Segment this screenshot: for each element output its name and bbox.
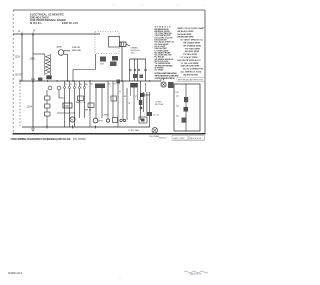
wire drop x140 (139, 81, 141, 120)
svg-text:DR: DR (176, 92, 180, 94)
ign component hatch blob A (100, 57, 106, 62)
lamp circle left A (48, 86, 52, 90)
sheet border right (204, 10, 206, 134)
svg-text:L1: L1 (18, 31, 21, 33)
svg-text:OVEN WIRING SCHEMATIC FOR (MO: OVEN WIRING SCHEMATIC FOR (MODEL) ERD 36… (11, 137, 71, 141)
svg-text:1280: 1280 (30, 59, 36, 61)
svg-text:14: 14 (70, 84, 72, 86)
svg-text:MTR: MTR (98, 121, 103, 123)
switch blob B (140, 75, 144, 79)
svg-text:1234: 1234 (27, 106, 33, 109)
igniter circle component (58, 50, 64, 56)
right box blob B (184, 107, 189, 112)
heating element comb (45, 54, 51, 75)
svg-text:316080-100 A: 316080-100 A (8, 272, 23, 275)
svg-text:P/N 316080: P/N 316080 (73, 138, 86, 141)
svg-text:WIRE COLOR CODE CHART: WIRE COLOR CODE CHART (178, 27, 206, 30)
wire drop x64 (64, 81, 66, 127)
switch blob A (133, 74, 138, 78)
wire drop x108 (107, 81, 109, 118)
legend column 2 (178, 27, 206, 76)
svg-text:IGN 3.2A: IGN 3.2A (72, 49, 81, 52)
svg-text:M: M (71, 119, 73, 122)
svg-text:TN TAN WIRE: TN TAN WIRE (183, 53, 198, 56)
svg-text:GY GRAY WIRE NO 14: GY GRAY WIRE NO 14 (181, 39, 204, 42)
svg-text:RD RED WIRE: RD RED WIRE (185, 51, 200, 53)
wire drop x69 (69, 81, 71, 127)
svg-text:FAN: FAN (104, 114, 109, 117)
wire vertical x122 (121, 47, 123, 82)
right box blob C (182, 118, 187, 123)
svg-text:GY GRAY: GY GRAY (155, 69, 165, 72)
bus start tick (19, 80, 21, 83)
svg-text:YL YELLOW WIRE: YL YELLOW WIRE (181, 63, 200, 65)
wire dashed drop x20 (19, 83, 21, 127)
svg-text:120V: 120V (15, 56, 21, 59)
svg-text:BK: BK (80, 84, 83, 86)
switch bank box top (130, 58, 147, 60)
svg-text:GY: GY (114, 84, 117, 86)
svg-text:PK PINK WIRE: PK PINK WIRE (185, 48, 201, 50)
wire drop x123 (122, 81, 124, 120)
wire vertical x33 neutral (32, 34, 34, 129)
junction blob (141,95) (141, 93, 145, 97)
svg-text:BLOWER: BLOWER (150, 136, 160, 138)
wire drop x150 (149, 92, 151, 127)
motor circle 2 (93, 118, 98, 123)
cluster box center (141, 119, 145, 122)
svg-text:BR 16: BR 16 (85, 110, 92, 112)
junction cross at (33,81) (31, 79, 35, 83)
blob ACM on bus (38, 78, 43, 81)
wire vertical x95.5 up to dashed box (95, 54, 97, 70)
link y95 (140, 94, 149, 96)
node tick N (32, 33, 34, 37)
contact pair circle A (120, 119, 122, 121)
page bottom dot (120, 278, 121, 279)
component tick marks (122, 42, 124, 47)
wire drop x74 (74, 81, 76, 127)
svg-text:DWG 17242: DWG 17242 (173, 138, 185, 140)
svg-text:SEE INSTALLATION NOTES: SEE INSTALLATION NOTES (178, 78, 204, 81)
wire number labels mid column (119, 91, 137, 105)
svg-text:VT VIOLET WIRE: VT VIOLET WIRE (181, 57, 199, 59)
box component near x113 (113, 118, 118, 123)
wire drop x84 (84, 81, 86, 118)
svg-text:TN: TN (128, 103, 131, 105)
ign component hatch blob C (110, 62, 117, 67)
wire drop x90 (89, 81, 91, 127)
bus junction dots (32, 80, 150, 82)
node tick L1 (21, 33, 23, 37)
svg-text:CONV FAN: CONV FAN (128, 129, 140, 132)
wire y113 link (57, 112, 75, 114)
wire stacked column (46, 90, 48, 127)
junction ticks bottom bus (47, 126, 96, 129)
svg-text:.. ....: .. .... (176, 4, 180, 6)
wire L1 top bus (13, 33, 100, 35)
wire drop x96 (95, 88, 97, 118)
dashed enclosure box (95, 32, 119, 54)
svg-text:BR: BR (124, 96, 127, 98)
svg-text:MOTOR: MOTOR (155, 104, 164, 106)
small box component (111,96) (111, 96, 117, 101)
svg-text:12: 12 (65, 84, 67, 86)
switch bank verticals (130, 59, 146, 81)
svg-text:IGN: IGN (100, 64, 104, 66)
sheet border left (dashed) (12, 10, 14, 134)
right box blob A (184, 97, 188, 102)
wire number labels row (65, 84, 117, 86)
stacked component box 2 (45, 104, 51, 108)
wire drop x102 (101, 88, 103, 118)
wire x59 drop (59, 90, 65, 98)
component blob (139,102) (139, 100, 143, 105)
svg-text:WH WHITE WIRE NO 16: WH WHITE WIRE NO 16 (178, 60, 202, 62)
svg-text:16: 16 (75, 84, 77, 86)
relay dark box on bus (95, 84, 105, 89)
svg-text:GN GREEN WIRE: GN GREEN WIRE (183, 43, 201, 45)
wire vertical x22 (21, 34, 23, 81)
legend column 1 (155, 27, 180, 80)
wire to spark label (126, 44, 130, 46)
motor circle M (70, 117, 75, 122)
wire bottom bus y127 (22, 126, 150, 128)
svg-text:DL 14: DL 14 (153, 115, 160, 117)
junction x118 blob (117, 80, 121, 84)
svg-text:18-2: 18-2 (131, 53, 136, 55)
motor circle 4 (106, 119, 109, 122)
component small box right of enclosure (120, 42, 126, 47)
svg-text:ERD 36-41S: ERD 36-41S (62, 21, 78, 25)
svg-text:UNLESS NOTED: UNLESS NOTED (183, 74, 199, 76)
right box left ticks (176, 96, 179, 116)
svg-text:sign here ok: sign here ok (190, 273, 202, 276)
EOC dark box below bus (131, 83, 138, 88)
ground arrow bottom of x33 (32, 129, 35, 132)
wire vertical x73 (72, 70, 74, 82)
heating element terminal blob (46, 75, 51, 79)
svg-text:18: 18 (119, 91, 121, 93)
svg-text:REV E 9-98: REV E 9-98 (190, 138, 202, 140)
lamp circle left B (57, 86, 61, 90)
page bottom-right faint scrawl (184, 271, 208, 273)
sheet border bottom (13, 133, 206, 135)
svg-text:... ....: ... .... (140, 4, 145, 6)
switch contacts (130, 69, 147, 71)
wire drop x134 (133, 88, 135, 121)
wire drop x143 (143, 92, 145, 112)
svg-text:VT: VT (135, 96, 137, 98)
svg-text:14: 14 (33, 30, 36, 33)
right box inner vertical (185, 84, 187, 131)
titleblock underline (172, 140, 205, 142)
svg-text:BK BLACK WIRE: BK BLACK WIRE (178, 30, 195, 33)
blower X (153, 128, 157, 132)
wire drop x79 (79, 81, 81, 118)
legend footnote box (177, 78, 205, 82)
component blob (141,108) (140, 107, 143, 110)
small dark box right (168, 82, 174, 88)
svg-text:BL BLUE WIRE: BL BLUE WIRE (178, 34, 193, 36)
ign component hatch blob B (112, 56, 118, 61)
cluster box bottom (142,120) (139, 117, 147, 123)
wire horizontal y69.5 (73, 69, 96, 71)
svg-text:17A 120: 17A 120 (72, 46, 81, 49)
titleblock cell 1 (172, 136, 188, 141)
wire igniter drop x67.5 (67, 54, 69, 81)
svg-text:CONTROLS IN OFF POSITION: CONTROLS IN OFF POSITION (155, 78, 176, 80)
svg-text:WH: WH (85, 84, 89, 86)
svg-text:ACM: ACM (57, 46, 62, 49)
svg-text:..: .. (203, 5, 205, 7)
svg-text:NOTE 2: NOTE 2 (159, 138, 167, 140)
svg-text:TOD: TOD (64, 106, 69, 108)
svg-text:.... ...: .... ... (112, 4, 117, 6)
contact circles row below bus (63, 86, 85, 88)
title text block (30, 13, 78, 25)
svg-text:BL: BL (109, 84, 111, 86)
stacked component box 1 (45, 96, 51, 100)
svg-text:BAKE 12: BAKE 12 (76, 101, 86, 104)
TOD box (63, 103, 72, 108)
svg-text:GND GROUND WIRE: GND GROUND WIRE (181, 66, 201, 68)
small box component (88,103) (88, 103, 94, 108)
wire drop x118 (117, 84, 119, 128)
wire drop x147 (146, 92, 148, 116)
relay box inside enclosure (109, 37, 120, 48)
small box components mid (78, 96, 84, 101)
wire drop x127 (126, 88, 128, 120)
svg-text:RD: RD (91, 84, 94, 86)
switch bank lower stubs (131, 83, 146, 100)
svg-text:NC NO CONNECTION: NC NO CONNECTION (183, 69, 204, 71)
svg-text:MODEL: MODEL (30, 21, 42, 25)
wire feed to element y54 (33, 53, 45, 55)
svg-text:OR ORANGE WIRE: OR ORANGE WIRE (183, 44, 202, 47)
sheet border top (13, 9, 205, 11)
blower X-circle bottom (152, 128, 158, 134)
contact pair circle B (123, 119, 125, 121)
stacked component box 3 (45, 112, 51, 116)
component blob (149,114) (147, 112, 152, 116)
right big box (174, 84, 200, 131)
wire left drop x22 to bottom (21, 81, 23, 127)
igniter stub wires (64, 51, 70, 54)
wire drop x113 (112, 81, 114, 118)
svg-text:BR BROWN WIRE: BR BROWN WIRE (178, 37, 195, 39)
svg-text:ALL WIRING IS 18GA: ALL WIRING IS 18GA (181, 71, 203, 74)
lamp circle right end of bus (161, 82, 166, 87)
wire main bus y81 (20, 80, 161, 82)
lamp cross (162, 83, 166, 87)
titleblock cell 2 (189, 136, 205, 141)
spark module label (131, 47, 141, 55)
